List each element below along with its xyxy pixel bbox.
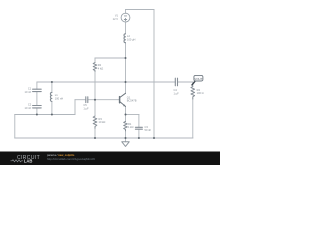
svg-text:1 µF: 1 µF: [83, 106, 89, 110]
svg-text:100 µH: 100 µH: [127, 38, 136, 42]
svg-text:R1: R1: [128, 122, 132, 126]
svg-text:12 V: 12 V: [113, 17, 119, 21]
svg-text:10 kΩ: 10 kΩ: [99, 120, 106, 124]
svg-text:R2: R2: [98, 63, 102, 67]
svg-text:http://circuitlab.com/c/1gsodu: http://circuitlab.com/c/1gsoduq62mz9: [47, 157, 95, 161]
svg-text:1 µF: 1 µF: [174, 91, 180, 95]
svg-text:1 kΩ: 1 kΩ: [128, 125, 133, 129]
svg-text:4 kΩ: 4 kΩ: [98, 67, 103, 71]
svg-text:V1: V1: [115, 13, 119, 17]
svg-text:C1: C1: [28, 86, 32, 90]
svg-text:10 nF: 10 nF: [25, 106, 32, 110]
svg-text:100 nH: 100 nH: [55, 97, 63, 101]
svg-text:C3: C3: [145, 125, 149, 129]
svg-text:100 Ω: 100 Ω: [197, 91, 204, 95]
svg-text:10 nF: 10 nF: [25, 90, 32, 94]
svg-text:R4: R4: [197, 88, 201, 92]
svg-text:VOUT: VOUT: [194, 77, 203, 81]
svg-text:R3: R3: [99, 117, 103, 121]
svg-text:BC547B: BC547B: [127, 99, 137, 103]
svg-text:LAB: LAB: [24, 159, 33, 164]
svg-text:50 nF: 50 nF: [145, 128, 152, 132]
svg-text:C2: C2: [28, 103, 32, 107]
